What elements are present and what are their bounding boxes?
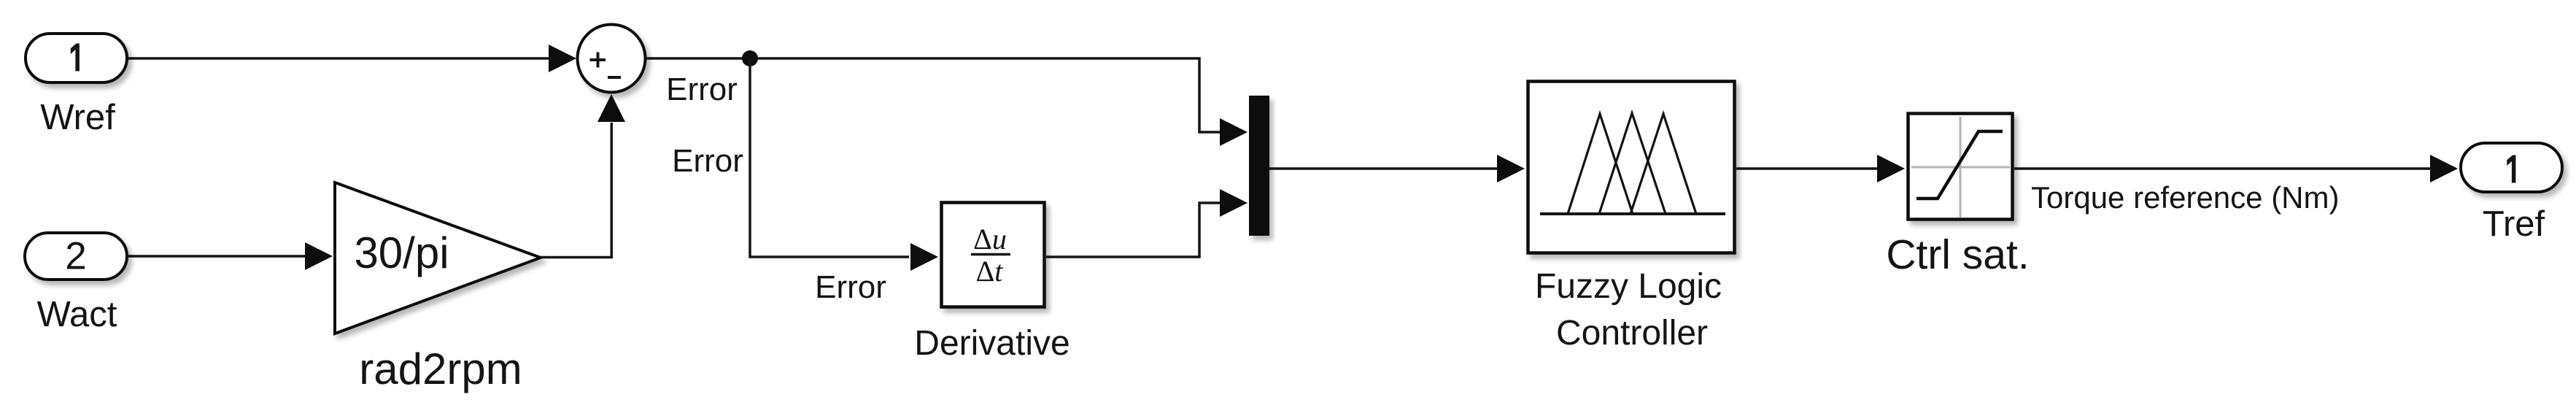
arrowhead into Gain <box>305 242 333 270</box>
fuzzy logic controller block <box>1528 82 1735 253</box>
svg-text:30/pi: 30/pi <box>354 228 449 277</box>
svg-text:Wref: Wref <box>40 98 115 137</box>
wire Gain to Sum bottom <box>541 123 611 258</box>
derivative fraction bar <box>971 253 1010 256</box>
FLC membership triangle 1 <box>1568 114 1633 214</box>
saturation gray axes <box>1911 117 2010 218</box>
gain rad2rpm triangle <box>335 182 541 334</box>
svg-text:Error: Error <box>815 269 886 305</box>
svg-text:Fuzzy Logic: Fuzzy Logic <box>1535 267 1722 306</box>
inport Wact <box>25 233 127 280</box>
saturation block Ctrl sat. <box>1908 114 2013 220</box>
wire FLC to Saturation <box>1736 167 1878 170</box>
svg-text:Torque reference (Nm): Torque reference (Nm) <box>2031 180 2339 215</box>
svg-text:Δt: Δt <box>976 255 1004 288</box>
svg-text:Wact: Wact <box>37 295 117 334</box>
FLC membership triangle 3 <box>1631 114 1696 214</box>
port number 1 (Wref) <box>71 44 80 72</box>
FLC baseline <box>1540 212 1725 215</box>
wire Wact to Gain <box>128 255 306 258</box>
arrowhead into Tref <box>2430 155 2458 182</box>
inport Wref <box>26 34 127 82</box>
arrowhead into Sum bottom <box>597 94 625 122</box>
sum minus sign <box>608 76 621 79</box>
svg-text:2: 2 <box>65 235 86 278</box>
sum block <box>578 25 646 93</box>
svg-text:Tref: Tref <box>2483 204 2545 244</box>
arrowhead into Saturation <box>1877 155 1905 182</box>
port number 1 (Tref) <box>2507 155 2515 183</box>
mux block <box>1249 96 1269 236</box>
svg-text:rad2rpm: rad2rpm <box>359 345 522 393</box>
wire Wref to Sum <box>128 57 550 60</box>
saturation curve <box>1916 131 2003 199</box>
arrowhead into Mux input 1 <box>1220 118 1248 146</box>
outport Tref <box>2461 143 2562 192</box>
svg-text:Error: Error <box>672 143 743 179</box>
arrowhead into Sum left <box>549 45 576 72</box>
derivative block <box>942 203 1045 307</box>
arrowhead into Mux input 2 <box>1220 189 1248 217</box>
arrowhead into FLC <box>1497 155 1525 182</box>
svg-text:Ctrl sat.: Ctrl sat. <box>1886 231 2029 278</box>
sum plus sign <box>590 53 606 68</box>
junction dot <box>742 50 758 66</box>
wire Sum to corner (to Mux input 1) <box>646 58 1221 132</box>
FLC membership triangle 2 <box>1599 113 1666 214</box>
wire branch down to Derivative <box>750 58 909 257</box>
svg-text:Δu: Δu <box>973 223 1007 255</box>
wire Derivative to Mux input 2 <box>1046 203 1220 257</box>
svg-text:Error: Error <box>666 72 738 107</box>
svg-text:Derivative: Derivative <box>914 324 1070 363</box>
arrowhead into Derivative <box>910 243 938 271</box>
wire Mux to Fuzzy Logic Controller <box>1269 167 1497 170</box>
svg-text:Controller: Controller <box>1556 314 1708 353</box>
wire Saturation to Tref <box>2014 167 2431 170</box>
